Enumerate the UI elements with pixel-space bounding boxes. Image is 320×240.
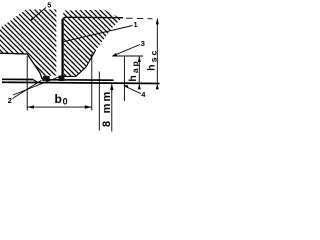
svg-text:2: 2 [8, 96, 12, 105]
svg-text:8 mm: 8 mm [101, 89, 113, 127]
svg-text:1: 1 [134, 20, 138, 29]
svg-text:5: 5 [47, 0, 51, 9]
svg-text:3: 3 [141, 39, 145, 48]
